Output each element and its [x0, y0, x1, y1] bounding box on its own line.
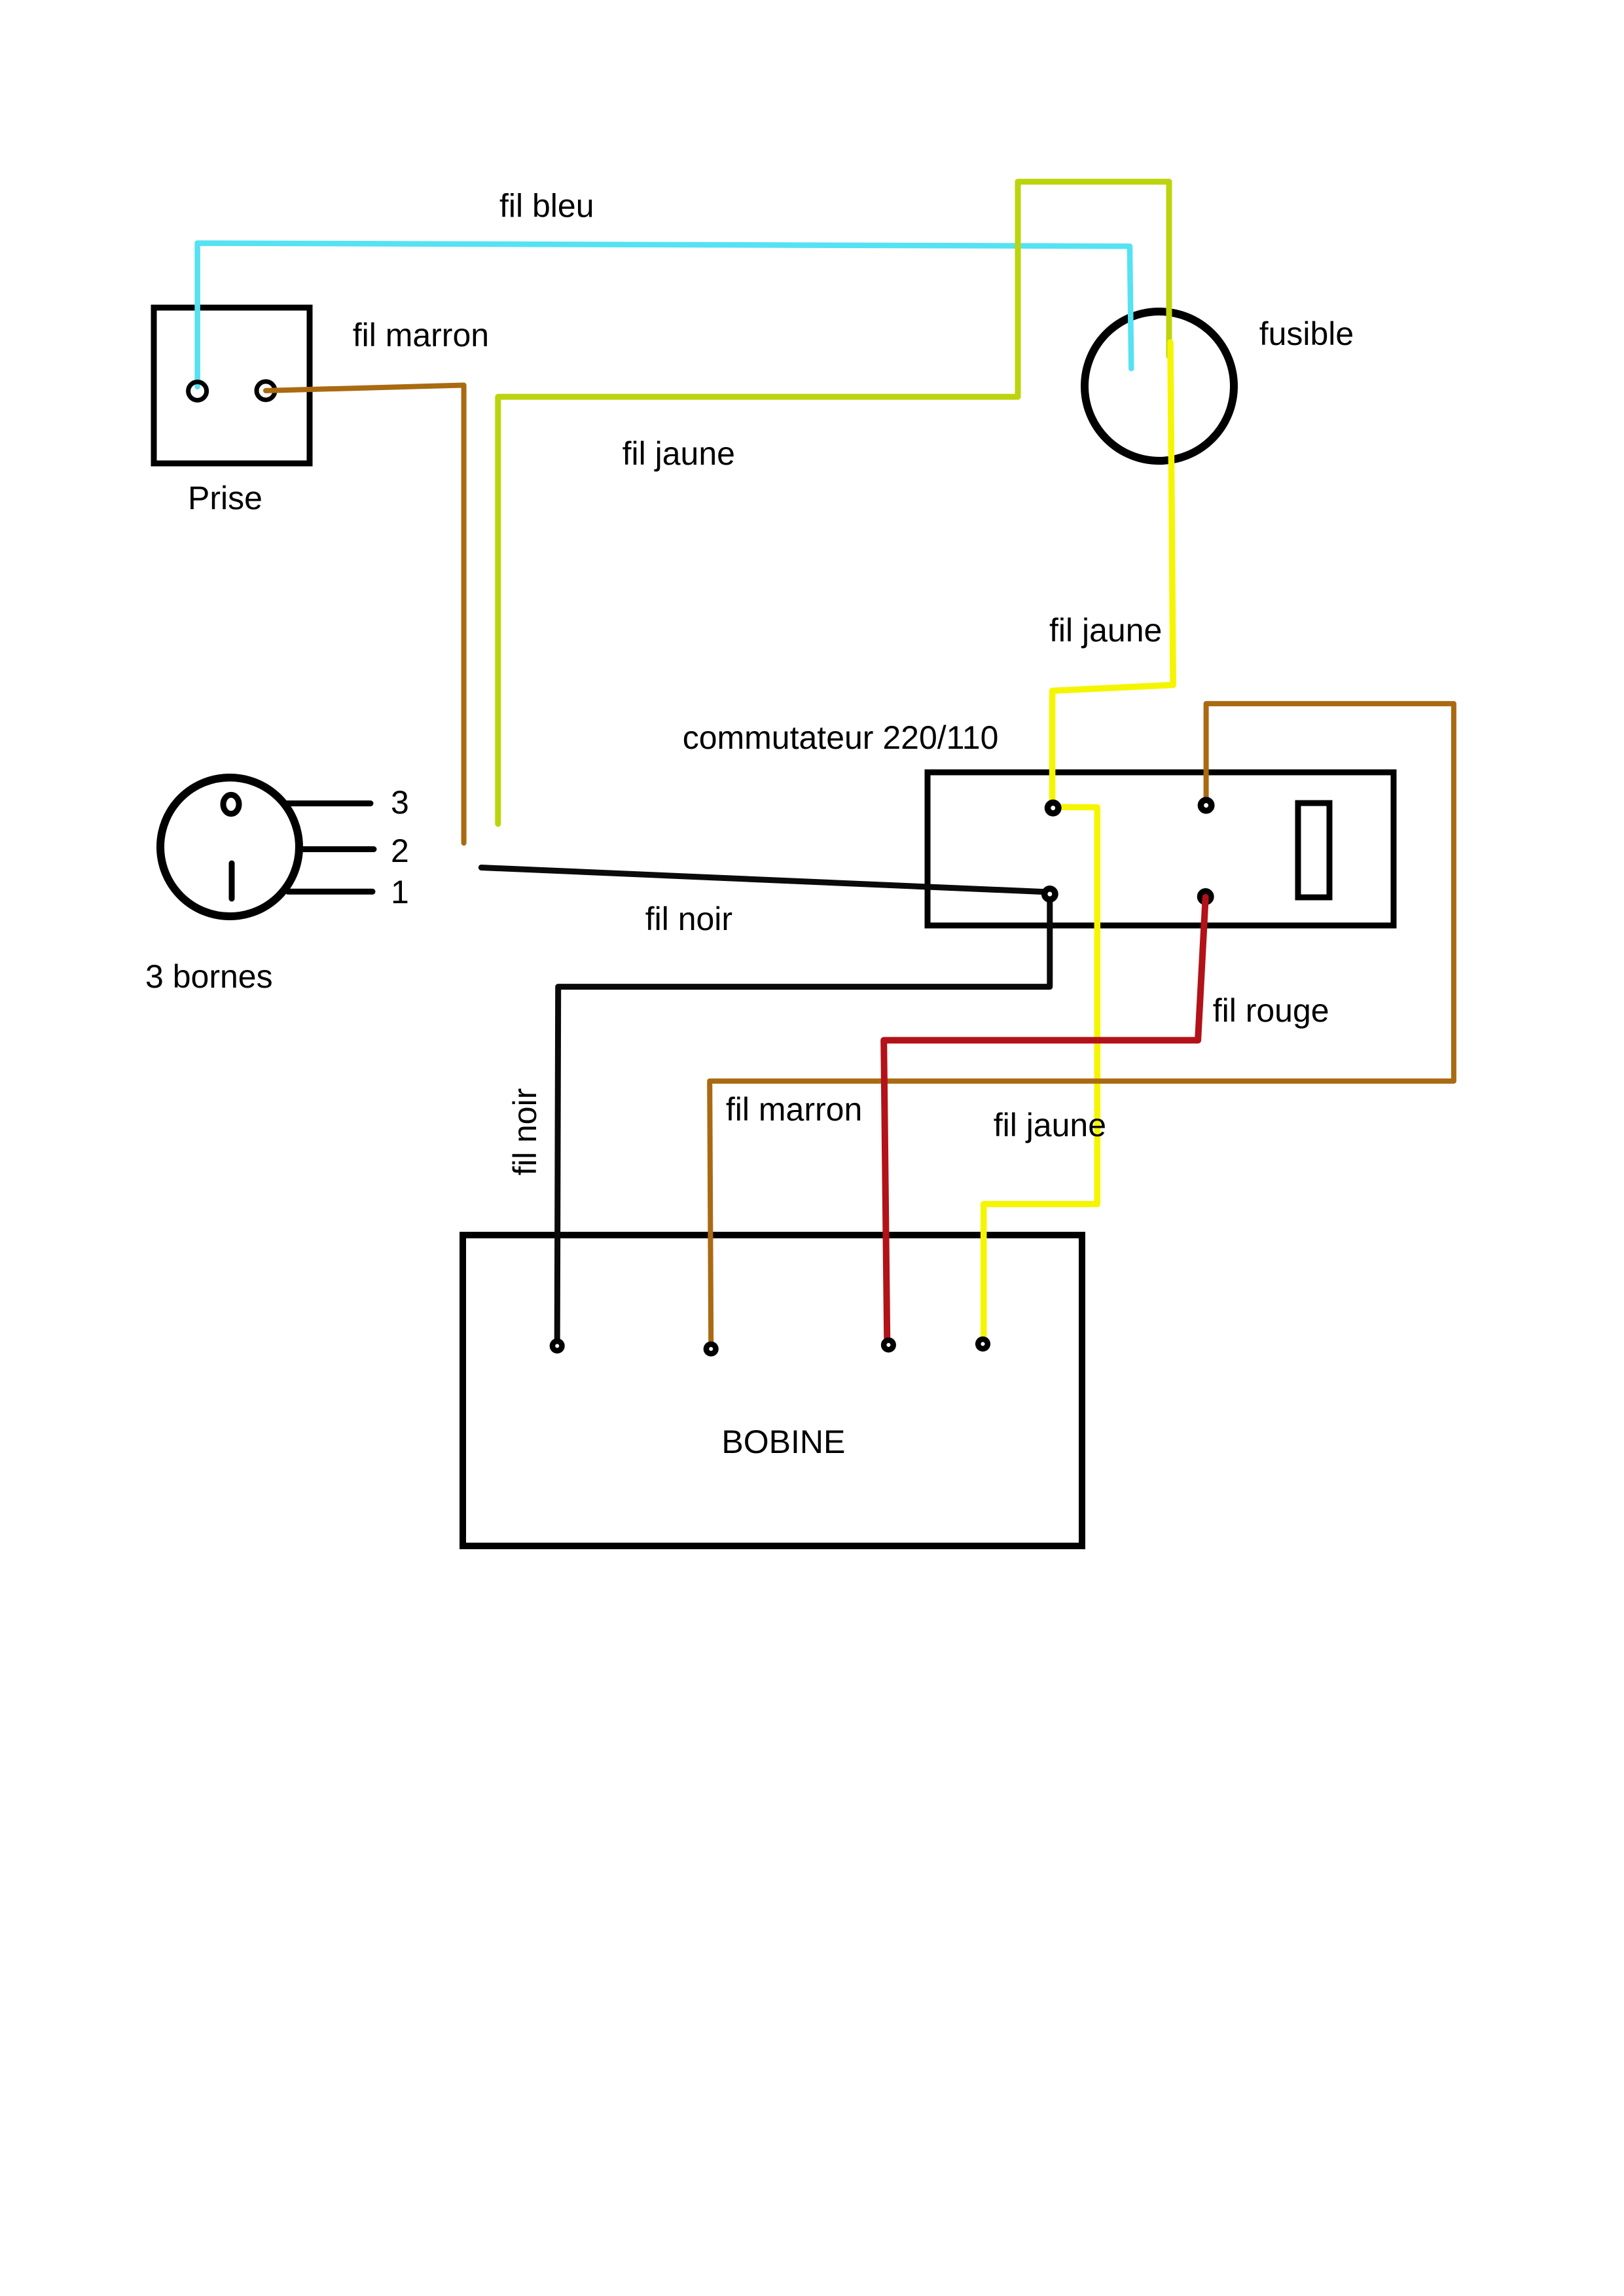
wire fil noir (black, commutateur lower-left terminal to bobine terminal 1) [557, 895, 1050, 1340]
svg-text:fil jaune: fil jaune [1049, 612, 1162, 649]
svg-text:Prise: Prise [188, 480, 262, 516]
bobine terminal 3 [884, 1340, 893, 1350]
svg-text:3: 3 [391, 784, 409, 821]
wire fil marron (brown, prise right terminal, hangs near switch) [266, 386, 464, 844]
bobine terminal 1 [552, 1341, 562, 1351]
switch pin line 2 [302, 846, 374, 852]
svg-text:fil marron: fil marron [353, 317, 489, 353]
svg-text:1: 1 [391, 874, 409, 910]
svg-text:commutateur 220/110: commutateur 220/110 [683, 719, 999, 756]
wire fil jaune chartreuse (near switch up and over to fusible) [498, 182, 1169, 824]
wire fil marron (brown, commutateur upper-right terminal loop to bobine terminal 2) [710, 704, 1454, 1343]
svg-text:2: 2 [391, 833, 409, 869]
bobine terminal 4 [978, 1339, 988, 1349]
fuse fusible circle [1085, 312, 1234, 461]
commutateur 220/110 box [928, 772, 1394, 925]
commutateur terminal bottom-left [1045, 889, 1055, 899]
BOBINE coil box [463, 1235, 1082, 1546]
svg-text:fil noir: fil noir [645, 901, 732, 937]
switch pin line 1 [288, 889, 372, 895]
svg-text:fusible: fusible [1259, 315, 1354, 352]
commutateur terminal bottom-right [1200, 891, 1211, 902]
prise terminal right [257, 382, 275, 400]
wire fil noir (black, switch line 1 to commutateur lower-left terminal) [481, 868, 1050, 893]
bobine terminal 2 [706, 1344, 716, 1354]
socket box Prise [154, 308, 310, 463]
svg-text:BOBINE: BOBINE [721, 1424, 845, 1460]
svg-text:3 bornes: 3 bornes [145, 958, 273, 995]
wire fil rouge (dark red, commutateur lower-right terminal to bobine terminal 3) [884, 897, 1206, 1338]
commutateur terminal top-left [1048, 802, 1058, 813]
svg-text:fil jaune: fil jaune [994, 1107, 1106, 1143]
wire fil bleu (cyan, prise left terminal to fusible) [198, 243, 1132, 387]
wire fil jaune (bright yellow, commutateur upper-left terminal to bobine terminal 4) [984, 807, 1098, 1342]
commutateur inner lever rectangle [1298, 803, 1329, 897]
switch O marker [223, 795, 239, 814]
switch 3 bornes circle [160, 778, 299, 916]
svg-text:fil rouge: fil rouge [1213, 992, 1329, 1029]
svg-text:fil noir: fil noir [507, 1088, 543, 1175]
commutateur terminal top-right [1200, 800, 1211, 810]
svg-text:fil jaune: fil jaune [623, 435, 735, 472]
switch I marker [229, 863, 235, 899]
wire fil jaune (bright yellow, fusible down to commutateur upper-left terminal) [1053, 342, 1174, 806]
svg-text:fil marron: fil marron [726, 1091, 862, 1128]
svg-text:fil bleu: fil bleu [499, 188, 594, 224]
switch pin line 3 [287, 800, 370, 806]
prise terminal left [189, 382, 207, 401]
